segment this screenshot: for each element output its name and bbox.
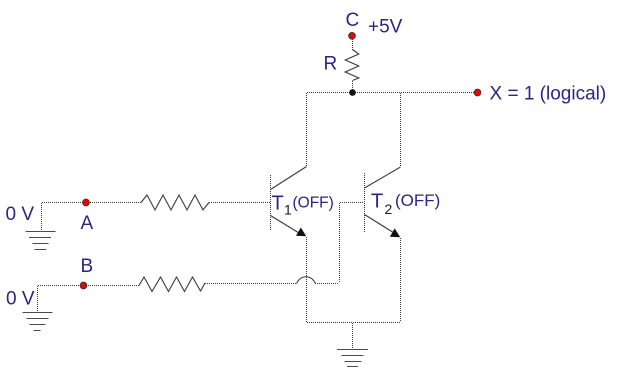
ground (input A): [26, 232, 56, 250]
svg-text:X = 1 (logical): X = 1 (logical): [490, 84, 607, 105]
ground (emitters): [337, 350, 368, 367]
resistor (input A): [141, 195, 209, 210]
svg-text:C: C: [346, 10, 360, 31]
svg-text:0 V: 0 V: [6, 204, 35, 225]
wire ground stem (emitters): [352, 323, 354, 349]
wire input B ground drop: [37, 286, 39, 312]
svg-text:+5V: +5V: [368, 17, 403, 38]
node B: [80, 282, 87, 289]
transistor T2 emitter stroke: [365, 215, 393, 233]
wire T2 emitter vertical: [400, 238, 402, 322]
wire top horizontal (output net): [307, 92, 477, 94]
wire riser top to T2 base: [340, 202, 364, 204]
junction node (R / collectors / output): [349, 89, 356, 96]
svg-text:(OFF): (OFF): [395, 191, 440, 210]
transistor T2 collector stroke: [365, 167, 401, 188]
transistor T2 base bar: [364, 173, 366, 232]
transistor T2 emitter arrow: [390, 228, 400, 237]
svg-text:1: 1: [284, 202, 292, 218]
transistor T1 base bar: [270, 175, 272, 230]
transistor T1 collector stroke: [271, 167, 307, 190]
wire resistor A to T1 base: [209, 202, 270, 204]
wire collector T1 vertical: [306, 93, 308, 166]
svg-text:(OFF): (OFF): [293, 195, 334, 212]
wire resistor B toward riser: [205, 283, 297, 285]
resistor (input B): [139, 277, 205, 292]
svg-text:2: 2: [385, 201, 393, 217]
svg-text:A: A: [81, 213, 94, 234]
svg-text:0 V: 0 V: [6, 289, 35, 310]
wire input A ground drop: [41, 203, 43, 231]
svg-text:T: T: [371, 191, 383, 213]
node C (+5V terminal): [349, 32, 356, 39]
ground (input B): [23, 313, 53, 331]
svg-text:R: R: [324, 54, 338, 75]
wire riser to T2 base level: [339, 203, 341, 283]
wire input B horizontal: [38, 285, 139, 287]
node A: [83, 199, 90, 206]
resistor R: [345, 50, 359, 81]
wire hop over T1 emitter: [297, 277, 316, 284]
wire T1 emitter vertical: [306, 237, 308, 322]
wire after hop to riser corner: [315, 283, 339, 285]
node X output terminal: [474, 89, 481, 96]
wire bottom emitter bus: [307, 322, 400, 324]
wire resistor bottom to node: [352, 81, 354, 92]
wire collector T2 vertical: [400, 93, 402, 167]
transistor T1 emitter arrow: [296, 228, 306, 237]
wire C dot to resistor R top: [352, 39, 354, 50]
svg-text:B: B: [81, 256, 94, 277]
transistor T1 emitter stroke: [271, 216, 300, 234]
svg-text:T: T: [272, 193, 284, 215]
wire input A horizontal: [42, 202, 141, 204]
